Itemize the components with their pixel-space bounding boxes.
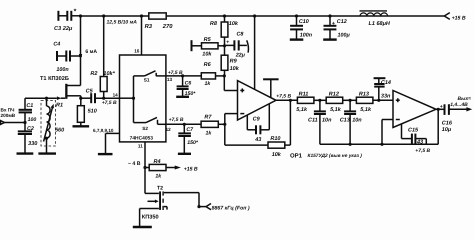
- capacitor C15: [402, 124, 427, 145]
- capacitor C13: [340, 100, 363, 144]
- ground (R1): [73, 125, 90, 127]
- node: pin 13 +7.5V: [166, 70, 201, 82]
- svg-text:74НС4053: 74НС4053: [130, 136, 154, 142]
- svg-text:-1,4...4В: -1,4...4В: [449, 102, 469, 108]
- capacitor C12: [323, 16, 350, 40]
- resistor R9: [221, 46, 240, 78]
- svg-text:10k: 10k: [230, 66, 240, 72]
- svg-text:Т2: Т2: [157, 186, 163, 192]
- wire: source row to C5: [79, 97, 91, 100]
- wire: gate row / input row: [25, 97, 57, 100]
- terminal: output Вых: [449, 96, 473, 112]
- svg-text:R4: R4: [154, 159, 161, 165]
- svg-text:C15: C15: [408, 127, 419, 133]
- svg-text:22μ: 22μ: [235, 52, 246, 58]
- resistor R12: [326, 91, 356, 113]
- svg-text:*: *: [74, 9, 77, 16]
- capacitor C11: [308, 100, 332, 144]
- svg-text:R5: R5: [204, 37, 212, 43]
- svg-text:C13: C13: [340, 117, 350, 123]
- svg-text:+: +: [332, 21, 335, 27]
- svg-text:5,1k: 5,1k: [296, 107, 308, 113]
- terminal: 8867 kHz Fоп: [206, 204, 250, 212]
- wire: feedback rail: [320, 109, 438, 146]
- svg-text:10k*: 10k*: [103, 71, 115, 77]
- terminal +15V: [444, 13, 466, 22]
- svg-text:+7,5 В: +7,5 В: [168, 70, 183, 76]
- transistor T2 (КП350): [140, 168, 167, 221]
- capacitor C9: [247, 104, 269, 143]
- svg-text:S1: S1: [144, 77, 150, 82]
- svg-text:100μ: 100μ: [338, 33, 351, 39]
- svg-text:200мВ: 200мВ: [1, 113, 16, 118]
- ground (T2 source): [133, 209, 152, 228]
- svg-text:100n: 100n: [300, 33, 313, 39]
- svg-text:К157УД2 (выв не указ ): К157УД2 (выв не указ ): [308, 153, 363, 159]
- svg-text:L1 68μH: L1 68μH: [369, 21, 391, 27]
- ground (C2): [17, 152, 34, 154]
- resistor R10: [225, 100, 291, 158]
- svg-text:10n: 10n: [352, 117, 362, 123]
- ground (C7): [178, 153, 191, 155]
- capacitor C1: [19, 98, 37, 123]
- resistor R1: [55, 98, 84, 133]
- svg-text:R3: R3: [145, 23, 153, 30]
- svg-text:+15 В: +15 В: [452, 15, 466, 21]
- IC U1 74HC4053 box: [120, 55, 166, 142]
- capacitor C5: [86, 88, 120, 114]
- transistor T1 (КП302Б JFET): [40, 76, 81, 100]
- wire: rail from R3 to +15V terminal: [166, 14, 444, 17]
- inductor: tuned coil in dashed box: [41, 98, 56, 153]
- svg-text:560: 560: [55, 128, 64, 134]
- wire: pin14 row inside IC: [120, 76, 136, 123]
- inductor L1: [360, 11, 391, 27]
- svg-text:100n: 100n: [56, 67, 69, 73]
- svg-text:43: 43: [416, 139, 423, 145]
- svg-text:R11: R11: [299, 91, 309, 97]
- svg-text:S2: S2: [142, 126, 148, 131]
- capacitor C10: [290, 16, 313, 40]
- capacitor C3: [54, 9, 81, 32]
- switch S2: [134, 117, 166, 131]
- capacitor C14: [374, 78, 391, 100]
- svg-text:~ 4 В: ~ 4 В: [128, 161, 141, 167]
- svg-text:C14: C14: [381, 80, 391, 86]
- svg-text:+: +: [226, 40, 229, 46]
- wire: op1 power from rail: [254, 16, 256, 89]
- svg-text:R6: R6: [204, 62, 212, 68]
- svg-text:270: 270: [162, 23, 173, 30]
- capacitor C6: [177, 76, 197, 97]
- svg-text:14: 14: [113, 92, 119, 97]
- svg-text:100: 100: [28, 117, 37, 123]
- capacitor C16: [440, 104, 467, 133]
- node: +12.5V rail: [79, 14, 149, 25]
- capacitor C2: [18, 123, 38, 154]
- svg-text:13: 13: [167, 77, 173, 82]
- op-amp OP1.1: [238, 81, 277, 120]
- svg-text:10μ: 10μ: [442, 127, 452, 133]
- switch S1: [134, 71, 166, 83]
- svg-text:8867 кГц (Fоп ): 8867 кГц (Fоп ): [212, 205, 250, 211]
- svg-text:C7: C7: [186, 127, 194, 133]
- svg-text:C3 22μ: C3 22μ: [54, 26, 73, 32]
- capacitor C7: [178, 124, 199, 153]
- svg-text:КП350: КП350: [142, 215, 159, 221]
- svg-text:C11: C11: [308, 117, 318, 123]
- wire: jog to op1 - input: [223, 114, 237, 146]
- resistor R8: [210, 16, 239, 47]
- svg-text:6 мА: 6 мА: [85, 49, 97, 55]
- terminal: input Вх ПЧ 200мВ: [1, 108, 27, 125]
- svg-text:6,7,8,9,10: 6,7,8,9,10: [93, 128, 114, 133]
- terminal: op1 power T-bar: [263, 79, 279, 98]
- svg-text:330: 330: [28, 141, 38, 147]
- wire: T1 drain column, 6mA arrow: [79, 16, 98, 86]
- wire: op1 output +7.5V: [276, 93, 297, 102]
- svg-text:11: 11: [138, 144, 143, 149]
- pin 16: [134, 16, 141, 55]
- svg-text:R13: R13: [359, 91, 369, 97]
- wire: op2 - input riser: [382, 120, 393, 145]
- svg-text:C10: C10: [299, 19, 309, 25]
- capacitor C8: [225, 31, 249, 58]
- svg-text:10k: 10k: [272, 152, 282, 158]
- svg-text:C12: C12: [337, 19, 347, 25]
- resistor R13: [356, 91, 393, 113]
- svg-text:R10: R10: [270, 136, 280, 142]
- svg-text:C2: C2: [27, 126, 34, 132]
- svg-text:150*: 150*: [187, 140, 199, 146]
- resistor R4: [145, 159, 198, 180]
- svg-text:+7,5 В: +7,5 В: [415, 148, 430, 154]
- wire: op2 output: [436, 108, 444, 111]
- svg-text:R8: R8: [210, 21, 218, 27]
- node: pin 14 +7.5V: [102, 92, 118, 106]
- svg-text:10n: 10n: [322, 117, 332, 123]
- resistor R3: [145, 13, 174, 30]
- resistor R11: [296, 91, 326, 113]
- svg-text:C6: C6: [185, 80, 192, 86]
- wire: T2 drain loop to 8867 kHz input: [164, 193, 206, 209]
- op-amp OP1.2: [393, 91, 436, 128]
- node: pin 12 +7.5V: [166, 117, 202, 132]
- resistor R5: [192, 37, 225, 57]
- svg-text:+7,5 В: +7,5 В: [102, 100, 117, 106]
- resistor R7: [201, 114, 225, 136]
- svg-text:R2: R2: [90, 71, 97, 77]
- resistor R6: [201, 62, 224, 87]
- svg-text:C8: C8: [237, 31, 244, 37]
- capacitor C4: [53, 41, 80, 73]
- svg-text:Т1 КП302Б: Т1 КП302Б: [40, 76, 69, 82]
- svg-text:+15 В: +15 В: [184, 167, 198, 173]
- svg-text:+7,5 В: +7,5 В: [169, 117, 184, 123]
- svg-text:R7: R7: [204, 114, 212, 120]
- svg-text:510: 510: [88, 109, 97, 115]
- svg-text:C5: C5: [86, 88, 94, 94]
- pin 11: [128, 142, 147, 169]
- svg-text:C4: C4: [53, 41, 60, 47]
- svg-text:16: 16: [134, 48, 140, 53]
- pins 6,7,8,9,10 to ground: [93, 128, 120, 154]
- ground (C6): [176, 96, 189, 98]
- svg-text:10k: 10k: [202, 51, 212, 57]
- svg-text:R12: R12: [329, 91, 339, 97]
- svg-text:+: +: [440, 104, 443, 110]
- svg-text:R9: R9: [230, 59, 238, 65]
- wire: jog to op1 + input: [224, 76, 237, 91]
- svg-text:C16: C16: [442, 120, 453, 126]
- svg-text:5,1k: 5,1k: [330, 107, 342, 113]
- ground (coil): [38, 152, 56, 154]
- svg-text:43: 43: [254, 137, 261, 143]
- resistor R2: [90, 16, 115, 100]
- svg-text:5,1k: 5,1k: [360, 107, 372, 113]
- svg-text:+7,5 В: +7,5 В: [276, 93, 291, 99]
- label OP1 К157УД2: [290, 152, 362, 159]
- svg-text:C9: C9: [253, 117, 261, 123]
- svg-text:R1: R1: [56, 103, 63, 109]
- svg-text:12: 12: [166, 127, 172, 132]
- svg-text:12,5 В/10 мА: 12,5 В/10 мА: [107, 19, 138, 25]
- svg-text:33n: 33n: [381, 94, 391, 100]
- svg-text:C1: C1: [26, 103, 33, 109]
- ground (pins): [98, 153, 113, 155]
- svg-text:10k: 10k: [229, 21, 239, 27]
- svg-text:ОР1: ОР1: [290, 152, 303, 159]
